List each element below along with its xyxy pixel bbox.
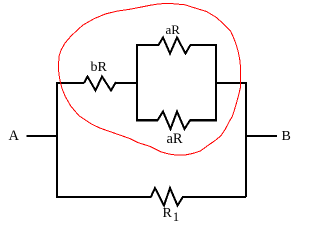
value label aR bottom — [167, 131, 183, 148]
wire parallel box left edge — [136, 44, 138, 122]
red selection loop — [58, 3, 240, 155]
wire B stub — [246, 135, 277, 137]
wire top left segment — [56, 82, 84, 84]
wire bottom left segment — [56, 196, 152, 198]
resistor R1 — [151, 188, 183, 206]
wire left rail — [56, 82, 58, 197]
wire A stub — [27, 135, 57, 137]
wire box bottom edge right — [190, 119, 218, 122]
node B label — [282, 129, 291, 145]
resistor aR bottom — [158, 112, 191, 130]
wire bottom right segment — [183, 196, 247, 198]
wire top right segment — [116, 82, 139, 84]
value label aR top — [166, 22, 180, 38]
node A label — [9, 128, 19, 145]
wire middle right segment — [215, 82, 246, 84]
wire box top edge right — [190, 44, 217, 46]
wire parallel box right edge — [215, 44, 217, 122]
wire box bottom edge left — [136, 119, 158, 122]
value label R1 — [163, 206, 180, 225]
wire box top edge left — [136, 44, 159, 46]
resistor bR — [84, 77, 117, 91]
wire right rail — [245, 82, 247, 197]
value label bR — [91, 60, 107, 76]
resistor aR top — [159, 38, 191, 54]
